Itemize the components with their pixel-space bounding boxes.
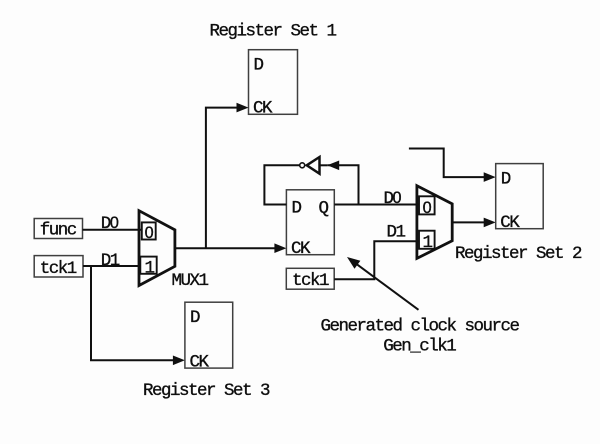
wire: tck1 (second) to MUX2 input 1 bbox=[334, 241, 419, 279]
select box 0 bbox=[419, 196, 435, 214]
svg-text:MUX1: MUX1 bbox=[172, 271, 209, 291]
svg-text:1: 1 bbox=[145, 259, 155, 279]
arrowhead into RS3 CK bbox=[173, 356, 185, 366]
input box tck1 (second) bbox=[286, 268, 334, 291]
svg-text:D: D bbox=[254, 56, 264, 76]
svg-text:D0: D0 bbox=[101, 214, 119, 234]
svg-text:tck1: tck1 bbox=[292, 271, 329, 291]
mux MUX2 bbox=[417, 186, 452, 259]
wire: MUX1 output branch up to Register Set 1 CK bbox=[206, 108, 238, 249]
input box tck1 bbox=[34, 256, 83, 279]
select box 1 bbox=[140, 257, 156, 274]
select box 1 bbox=[419, 231, 435, 249]
svg-text:Register Set 1: Register Set 1 bbox=[210, 21, 337, 41]
register Register Set 3 (D flip-flop) bbox=[185, 302, 233, 372]
svg-text:D: D bbox=[501, 169, 511, 189]
inverter (NOT gate, pointing left) bbox=[300, 157, 320, 174]
svg-text:D1: D1 bbox=[101, 251, 120, 271]
annotation arrowhead bbox=[347, 257, 360, 269]
register Register Set 2 (D flip-flop) bbox=[496, 164, 544, 233]
svg-text:0: 0 bbox=[145, 224, 154, 242]
arrowhead into inverter input (pointing left) bbox=[327, 161, 339, 171]
svg-text:1: 1 bbox=[423, 233, 433, 253]
svg-text:tck1: tck1 bbox=[40, 259, 77, 279]
svg-text:CK: CK bbox=[291, 239, 311, 259]
wire: inverter output feedback to D input bbox=[264, 165, 299, 204]
arrowhead into middle FF CK bbox=[274, 243, 286, 253]
inverter output bubble bbox=[300, 163, 305, 168]
svg-text:D0: D0 bbox=[384, 189, 402, 209]
svg-text:CK: CK bbox=[253, 99, 273, 119]
svg-text:Q: Q bbox=[319, 199, 329, 219]
wire: Q output to MUX2 input 0 bbox=[334, 204, 419, 206]
svg-text:Register Set 3: Register Set 3 bbox=[143, 381, 270, 401]
svg-text:Generated clock source: Generated clock source bbox=[321, 317, 520, 337]
arrowhead into RS2 CK bbox=[484, 218, 496, 228]
select box 0 bbox=[142, 222, 156, 239]
svg-text:CK: CK bbox=[190, 352, 210, 372]
svg-text:CK: CK bbox=[500, 213, 520, 233]
svg-text:D: D bbox=[190, 308, 200, 328]
arrowhead into RS2 D bbox=[484, 172, 496, 182]
flip-flop middle latch (D Q CK) bbox=[286, 190, 334, 259]
svg-text:Register Set 2: Register Set 2 bbox=[455, 244, 582, 264]
wire: inverter input stub bbox=[320, 164, 328, 166]
svg-text:func: func bbox=[40, 221, 77, 241]
annotation arrow: generated clock source pointer bbox=[352, 261, 419, 310]
wire: feedback right vertical from Q line up bbox=[327, 165, 358, 204]
wire: tck1 to MUX1 input 1 bbox=[83, 265, 141, 267]
wire: func to MUX1 input 0 bbox=[83, 229, 143, 231]
wire: MUX1 output to middle flip-flop CK bbox=[175, 247, 277, 249]
wire: MUX2 output to Register Set 2 CK bbox=[452, 221, 486, 223]
register Register Set 1 (D flip-flop) bbox=[249, 50, 298, 119]
input box func bbox=[34, 219, 82, 241]
svg-text:D1: D1 bbox=[387, 223, 406, 243]
svg-text:0: 0 bbox=[423, 199, 432, 217]
svg-text:Gen_clk1: Gen_clk1 bbox=[383, 336, 456, 356]
wire: top stub into Register Set 2 D bbox=[409, 149, 486, 178]
mux MUX1 bbox=[139, 211, 175, 286]
wire: branch from tck1 down to Register Set 3 CK bbox=[91, 266, 175, 360]
arrowhead into RS1 CK bbox=[237, 103, 249, 113]
svg-text:D: D bbox=[292, 199, 302, 219]
